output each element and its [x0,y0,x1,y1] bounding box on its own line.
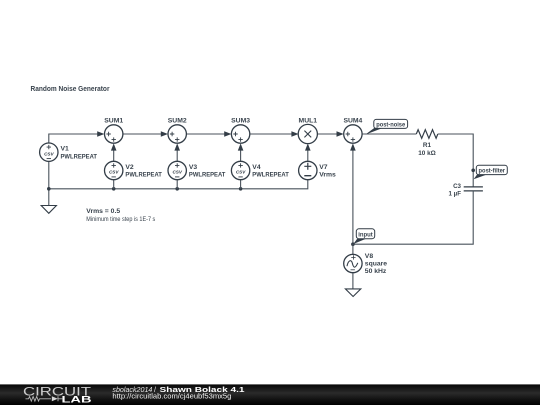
summing block SUM2 [168,125,186,143]
arrowhead into SUM3 [224,131,231,137]
multiplier MUL1 [298,124,317,143]
svg-text:CSV: CSV [44,151,54,156]
arrowhead into SUM2 [161,131,168,137]
logo diode triangle [52,396,58,401]
wire V8 bottom to ground [352,273,354,289]
summing block SUM3 [231,125,249,143]
arrowhead into SUM1 [97,131,104,137]
svg-text:V2: V2 [125,164,134,171]
node flag input [353,229,374,244]
wire V3 bottom to bus [176,180,178,189]
wire V4 bottom to bus [240,180,242,189]
svg-text:PWLREPEAT: PWLREPEAT [61,153,98,160]
svg-text:C3: C3 [453,183,461,190]
CircuitLab logo schematic squiggle (resistor + diode) [26,396,63,401]
wire V3 top to SUM2 bottom (with arrow) [176,150,178,162]
svg-text:PWLREPEAT: PWLREPEAT [252,172,289,179]
svg-text:http://circuitlab.com/cj4eubf5: http://circuitlab.com/cj4eubf53mx5g [112,391,231,400]
wire input node up to SUM4 bottom (with arrow) [352,150,354,245]
wire R1 to top-right corner and down to C3 [438,134,473,187]
svg-text:Vrms = 0.5: Vrms = 0.5 [86,208,120,215]
svg-text:post-filter: post-filter [479,167,506,174]
wire C3 bottom to input node [353,191,473,244]
wire SUM2 to SUM3 [186,133,225,135]
arrowhead into SUM4 [337,131,344,137]
svg-text:CSV: CSV [236,170,246,175]
svg-text:V3: V3 [189,164,198,171]
svg-text:SUM3: SUM3 [231,118,250,125]
arrowhead into SUM4 bottom [350,143,356,150]
junction dot at V4 bottom [239,187,243,191]
voltage source V8 (square 50 kHz) [344,254,362,272]
node flag post-noise [365,119,407,134]
junction dot input node [351,242,355,246]
arrowhead into SUM1 bottom [111,143,117,150]
svg-text:SUM1: SUM1 [104,118,123,125]
arrowhead into SUM3 bottom [238,143,244,150]
svg-text:input: input [358,231,373,238]
wire V7 top to MUL1 bottom (with arrow) [307,150,309,162]
capacitor C3 [464,187,483,191]
svg-text:V8: V8 [365,253,374,260]
svg-text:LAB: LAB [62,395,92,405]
svg-text:PWLREPEAT: PWLREPEAT [125,172,162,179]
svg-text:CSV: CSV [172,170,182,175]
svg-text:MUL1: MUL1 [299,118,318,125]
voltage source V1 (CSV PWLREPEAT) [40,143,58,161]
svg-text:V7: V7 [319,164,328,171]
svg-text:1 µF: 1 µF [448,191,461,198]
svg-text:CSV: CSV [109,170,119,175]
svg-text:50 kHz: 50 kHz [365,268,387,275]
svg-text:V1: V1 [61,146,70,153]
arrowhead into SUM2 bottom [174,143,180,150]
wire SUM4 output to R1 [362,133,416,135]
voltage source V3 (CSV PWLREPEAT) [168,161,186,179]
junction dot at V1 bottom [47,187,51,191]
resistor R1 [416,130,438,139]
arrowhead into MUL1 bottom [305,143,311,150]
footer black bar [0,384,540,405]
svg-text:R1: R1 [423,142,432,149]
ground below V1 [41,206,56,214]
svg-text:Vrms: Vrms [319,172,336,179]
svg-text:10 kΩ: 10 kΩ [418,150,436,157]
svg-text:Minimum time step is 1E-7 s: Minimum time step is 1E-7 s [86,216,155,223]
junction dot at V2 bottom [112,187,116,191]
svg-text:Random Noise Generator: Random Noise Generator [31,84,110,93]
wire V1 top to SUM1 left (with arrow) [49,134,99,143]
svg-text:SUM4: SUM4 [343,118,362,125]
svg-text:square: square [365,261,388,268]
node dot post-filter [471,169,475,173]
voltage source V4 (CSV PWLREPEAT) [231,161,249,179]
bottom bus wire to V7 [49,180,308,189]
wire V2 top to SUM1 bottom (with arrow) [113,150,115,162]
voltage source V2 (CSV PWLREPEAT) [105,161,123,179]
svg-text:V4: V4 [252,164,261,171]
wire SUM1 to SUM2 [123,133,163,135]
wire SUM3 to MUL1 [250,133,293,135]
svg-text:SUM2: SUM2 [168,118,187,125]
wire V1 bottom to bottom bus and ground stem [48,161,50,205]
summing block SUM4 [344,125,362,143]
junction dot at V3 bottom [175,187,179,191]
voltage source V7 (Vrms DC) [299,161,317,179]
svg-text:post-noise: post-noise [376,121,405,128]
wire MUL1 to SUM4 [317,133,338,135]
summing block SUM1 [105,125,123,143]
node flag post-filter [474,165,508,179]
wire input node to V8 top [352,244,354,254]
arrowhead into MUL1 [291,131,298,137]
wire V4 top to SUM3 bottom (with arrow) [240,150,242,162]
svg-text:PWLREPEAT: PWLREPEAT [189,172,226,179]
ground below V8 [345,289,360,297]
wire V2 bottom to bus [113,180,115,189]
